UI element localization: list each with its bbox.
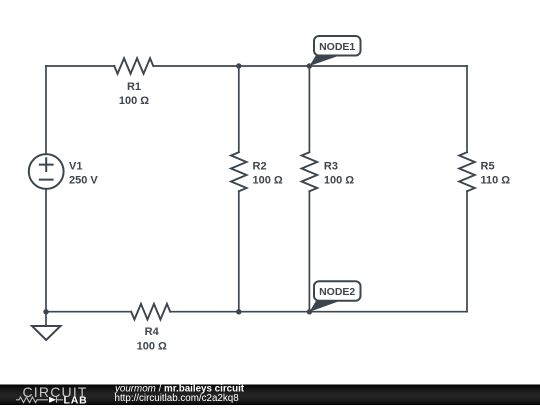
svg-text:100 Ω: 100 Ω: [253, 175, 283, 187]
svg-text:R4: R4: [145, 326, 160, 338]
svg-text:100 Ω: 100 Ω: [324, 175, 354, 187]
svg-text:NODE1: NODE1: [319, 41, 355, 53]
svg-text:100 Ω: 100 Ω: [119, 95, 149, 107]
svg-text:R5: R5: [481, 161, 495, 173]
svg-text:LAB: LAB: [64, 395, 88, 405]
svg-text:100 Ω: 100 Ω: [137, 341, 167, 353]
svg-text:250 V: 250 V: [69, 175, 98, 187]
svg-text:http://circuitlab.com/c2a2kq8: http://circuitlab.com/c2a2kq8: [115, 393, 240, 404]
svg-text:R1: R1: [127, 81, 141, 93]
svg-text:R3: R3: [324, 161, 338, 173]
svg-text:110 Ω: 110 Ω: [481, 175, 511, 187]
svg-text:V1: V1: [69, 161, 82, 173]
svg-text:R2: R2: [253, 161, 267, 173]
svg-text:NODE2: NODE2: [319, 286, 355, 298]
